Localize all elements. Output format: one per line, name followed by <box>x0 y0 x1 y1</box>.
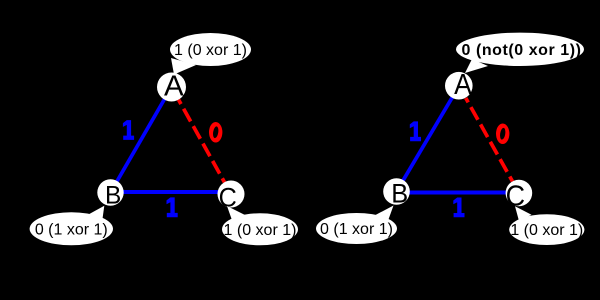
label 0 on edge A-C (right) <box>496 124 509 145</box>
wire edge A-C (right, red dashed, value 0) <box>466 98 513 181</box>
svg-text:Valid assignment: Valid assignment <box>24 39 183 62</box>
svg-text:one constraint is violated: one constraint is violated <box>318 259 483 276</box>
svg-text:0 (1 xor 1): 0 (1 xor 1) <box>320 221 393 238</box>
wire edge A-B (left, blue, value 1) <box>111 87 172 193</box>
node A (left) <box>157 73 186 102</box>
svg-text:1 (0 xor 1): 1 (0 xor 1) <box>224 222 297 239</box>
svg-text:1 (0 xor 1): 1 (0 xor 1) <box>510 222 583 239</box>
callout tail for bubble at A (right) <box>465 59 488 73</box>
wire edge A-B (right, blue, value 1) <box>397 86 460 192</box>
callout tail for bubble at A (left) <box>171 58 196 75</box>
svg-text:B: B <box>391 178 408 209</box>
callout bubble at C (left) <box>222 213 298 245</box>
svg-text:Invalid: Invalid <box>344 32 405 55</box>
label 1 on edge A-B (left) <box>123 120 134 140</box>
callout tail for bubble at C (right) <box>515 206 532 221</box>
svg-text:0 (not(0 xor 1)): 0 (not(0 xor 1)) <box>462 42 582 59</box>
node A (right) <box>445 72 473 100</box>
node C (right) <box>506 180 533 207</box>
callout bubble at B (left) <box>30 212 113 245</box>
node B (right) <box>383 178 410 205</box>
wire edge B-C (left, blue, value 1) <box>111 190 232 194</box>
callout tail for bubble at C (left) <box>227 206 246 223</box>
callout bubble at A (right) <box>456 33 584 66</box>
callout bubble at A (left) <box>170 33 251 66</box>
wire edge B-C (right, blue, value 1) <box>397 191 520 195</box>
callout tail for bubble at B (left) <box>88 206 105 223</box>
svg-text:0 (1 xor 1): 0 (1 xor 1) <box>35 221 108 238</box>
wire edge A-C (left, red dashed, value 0) <box>179 100 225 183</box>
svg-text:A: A <box>454 68 472 100</box>
label 1 on edge B-C (right) <box>453 198 464 218</box>
callout bubble at B (right) <box>316 213 397 244</box>
callout bubble at C (right) <box>509 214 584 245</box>
svg-text:1 (0 xor 1): 1 (0 xor 1) <box>174 42 247 59</box>
svg-text:A: A <box>164 71 184 103</box>
node C (left) <box>218 181 245 208</box>
label 0 on edge A-C (left) <box>209 122 222 143</box>
callout tail for bubble at B (right) <box>375 206 394 224</box>
label 1 on edge B-C (left) <box>167 197 178 217</box>
node B (left) <box>97 179 123 205</box>
svg-text:B: B <box>105 182 121 209</box>
label 1 on edge A-B (right) <box>410 121 421 141</box>
